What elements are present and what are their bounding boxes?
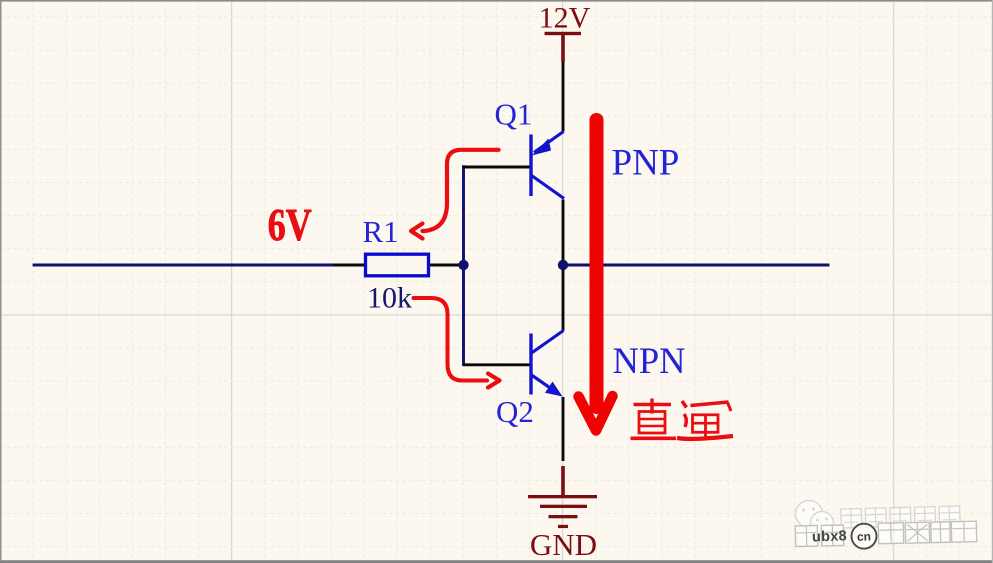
- svg-text:ubx8: ubx8: [812, 528, 848, 545]
- svg-text:NPN: NPN: [613, 340, 686, 381]
- svg-text:12V: 12V: [539, 2, 591, 35]
- svg-text:cn: cn: [857, 529, 871, 543]
- svg-text:10k: 10k: [367, 282, 412, 315]
- svg-text:Q1: Q1: [495, 97, 533, 132]
- svg-text:GND: GND: [530, 527, 597, 562]
- svg-text:6V: 6V: [268, 199, 312, 250]
- svg-text:PNP: PNP: [612, 143, 680, 184]
- svg-text:Q2: Q2: [496, 394, 534, 429]
- svg-text:R1: R1: [363, 214, 399, 249]
